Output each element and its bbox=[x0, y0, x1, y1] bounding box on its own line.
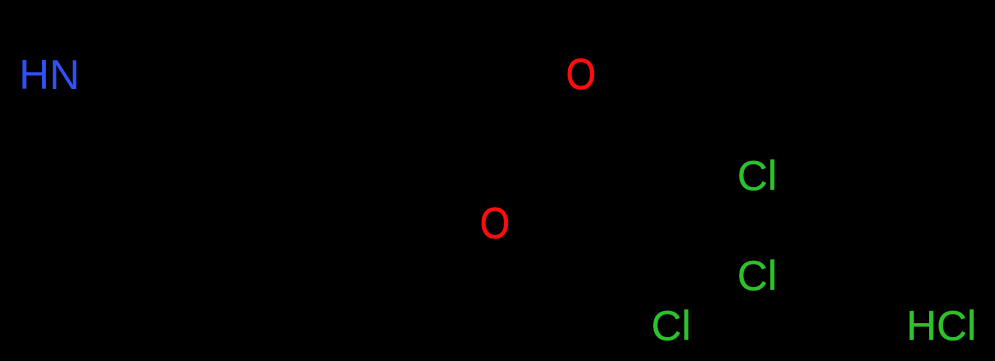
atom label O (ester bridging oxygen) bbox=[480, 202, 510, 246]
atom label HN (piperidine ring nitrogen N1) bbox=[19, 54, 80, 96]
salt label HCl (hydrochloride counter-ion) bbox=[906, 305, 976, 347]
atom label Cl (trichloromethyl chlorine 3) bbox=[651, 305, 691, 347]
atom label O (ester carbonyl oxygen, C=O) bbox=[566, 53, 596, 97]
atom label Cl (trichloromethyl chlorine 2) bbox=[737, 255, 777, 297]
atom label Cl (trichloromethyl chlorine 1) bbox=[737, 155, 777, 197]
